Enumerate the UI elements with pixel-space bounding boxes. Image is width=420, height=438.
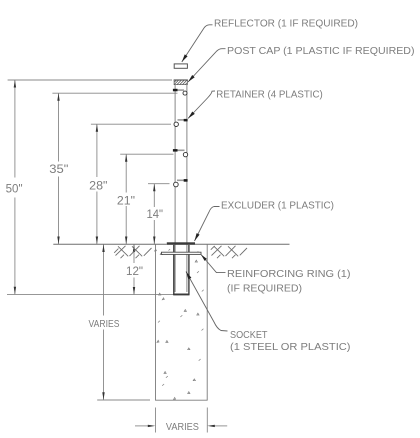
extension line footing bottom (left) [97, 399, 150, 401]
leader REFLECTOR [182, 25, 213, 62]
post cap top edge [174, 79, 188, 81]
dimension 50in line lower [14, 198, 16, 295]
svg-text:SOCKET: SOCKET [230, 330, 268, 341]
dimension 21in arrow down [125, 237, 127, 245]
retainer R2 ring [174, 122, 178, 126]
retainer R1 ring [183, 91, 187, 95]
svg-text:EXCLUDER (1 PLASTIC): EXCLUDER (1 PLASTIC) [221, 201, 334, 212]
dimension 21in arrow up [125, 154, 127, 162]
extension line socket bottom (left) [7, 294, 174, 296]
dimension 35in line upper [58, 93, 60, 161]
dimension VARIES (depth) line lower [103, 330, 105, 400]
dimension VARIES (depth) arrow up [102, 245, 104, 253]
dimension 14in line upper [153, 184, 155, 207]
footing width extension line left [155, 408, 157, 433]
socket left wall [173, 245, 175, 295]
leader SOCKET arrowhead [186, 272, 191, 280]
dimension 14in arrow down [153, 237, 155, 245]
post right wall [186, 85, 188, 292]
socket bottom [173, 294, 189, 296]
extension line top of post (50in level) [8, 79, 172, 81]
extension line 28in level [91, 123, 171, 125]
dimension VARIES (depth) arrow down [102, 392, 104, 400]
dimension 28in arrow up [96, 124, 98, 132]
svg-text:REFLECTOR (1 IF REQUIRED): REFLECTOR (1 IF REQUIRED) [214, 18, 358, 29]
extension line 21in level [120, 153, 173, 155]
leader REFLECTOR arrowhead [182, 54, 188, 62]
leader REINFORCING RING arrowhead [201, 255, 207, 261]
dimension VARIES (width) left arrow [148, 425, 156, 427]
footing left edge [155, 244, 157, 400]
dimension 35in arrow up [57, 93, 59, 101]
leader RETAINER arrowhead [188, 112, 195, 119]
svg-text:14": 14" [146, 207, 163, 221]
retainer R1 pin [175, 89, 184, 91]
reinforcing ring [162, 252, 202, 254]
dimension 50in line upper [14, 80, 16, 178]
retainer R4 pin [177, 179, 184, 181]
dimension VARIES (depth) line upper [103, 245, 105, 316]
leader POST CAP arrowhead [188, 75, 195, 82]
retainer R1 clip square [173, 89, 178, 92]
svg-text:28": 28" [89, 179, 107, 193]
dimension 50in arrow down [14, 287, 16, 295]
svg-text:(1 STEEL OR PLASTIC): (1 STEEL OR PLASTIC) [230, 342, 351, 353]
ground line left segment [53, 243, 167, 245]
dimension VARIES (width) right line [214, 425, 228, 427]
leader SOCKET [186, 272, 228, 332]
dimension 12in arrow up [133, 245, 135, 253]
svg-text:35": 35" [49, 162, 68, 176]
svg-text:REINFORCING RING (1): REINFORCING RING (1) [227, 269, 351, 280]
retainer R2 clip square [184, 119, 188, 122]
retainer R3 ring [183, 152, 187, 156]
extension line 14in level [148, 183, 170, 185]
leader POST CAP [188, 49, 226, 82]
dimension 28in arrow down [96, 237, 98, 245]
svg-text:VARIES: VARIES [166, 422, 199, 433]
dimension 28in line lower [96, 192, 98, 245]
post cap hatch [174, 80, 187, 85]
retainer R3 clip square [173, 149, 178, 152]
leader EXCLUDER arrowhead [195, 233, 200, 241]
leader EXCLUDER [195, 207, 220, 242]
dimension 12in line lower [133, 278, 135, 295]
svg-text:(IF REQUIRED): (IF REQUIRED) [227, 283, 302, 294]
svg-text:50": 50" [6, 182, 23, 196]
dimension 14in arrow up [153, 184, 155, 192]
retainer R4 clip square [184, 179, 188, 182]
dimension 12in line upper [133, 245, 135, 264]
dimension 21in line lower [125, 206, 127, 244]
dimension 12in arrow down [133, 287, 135, 295]
post left wall [174, 85, 176, 292]
reflector [174, 64, 187, 68]
dimension VARIES (width) right arrow [207, 425, 215, 427]
socket right wall [188, 245, 190, 295]
extension line 35in level [52, 92, 177, 94]
ground line right segment [195, 243, 290, 245]
svg-text:VARIES: VARIES [89, 319, 120, 330]
svg-text:21": 21" [117, 193, 135, 207]
dimension 35in line lower [58, 177, 60, 245]
retainer R4 ring [174, 182, 179, 187]
footing width extension line right [206, 408, 208, 433]
dimension 21in line upper [125, 154, 127, 192]
svg-text:RETAINER (4 PLASTIC): RETAINER (4 PLASTIC) [216, 90, 322, 101]
earth hatch right patch [211, 246, 247, 258]
dimension 50in arrow up [14, 80, 16, 88]
concrete speckles [155, 249, 204, 399]
dimension 28in line upper [96, 124, 98, 177]
svg-text:12": 12" [126, 264, 143, 278]
svg-text:POST CAP (1 PLASTIC IF REQUIRE: POST CAP (1 PLASTIC IF REQUIRED) [227, 46, 415, 57]
dimension 35in arrow down [57, 237, 59, 245]
earth hatch left patch [114, 246, 151, 258]
excluder flange [167, 242, 195, 245]
retainer R2 pin [178, 119, 185, 121]
footing right edge [206, 244, 208, 400]
leader REINFORCING RING [201, 255, 226, 273]
dimension 14in line lower [153, 220, 155, 244]
leader RETAINER [188, 91, 215, 119]
post cap body [174, 80, 187, 85]
retainer R3 pin [177, 149, 185, 151]
dimension VARIES (width) left line [135, 425, 149, 427]
footing bottom edge [155, 399, 208, 401]
